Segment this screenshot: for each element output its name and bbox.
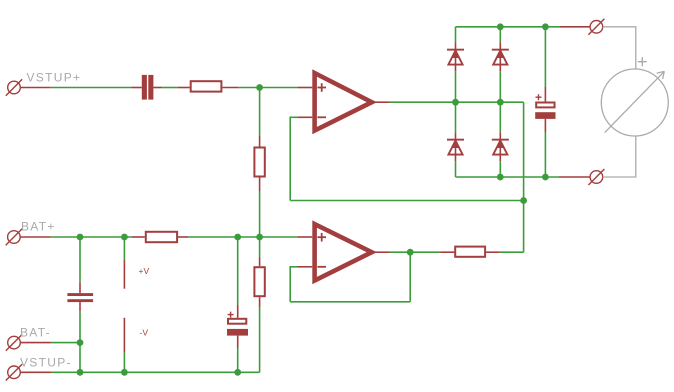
node BAT+ divider (256, 234, 263, 241)
wire C4 column top (79, 237, 81, 282)
meter M1 (601, 27, 668, 177)
wire VSTUP- rail (51, 371, 260, 373)
svg-text:BAT+: BAT+ (21, 220, 56, 234)
wire bridge bottom rail (456, 176, 560, 178)
power pin -V (124, 318, 148, 373)
wire U2 feedback (290, 252, 410, 302)
terminal BAT+ (6, 229, 51, 245)
node bridge mid left (452, 99, 459, 106)
capacitor C1 (131, 75, 162, 100)
svg-text:VSTUP-: VSTUP- (20, 356, 72, 370)
wire bridge column right (499, 27, 501, 177)
svg-text:-V: -V (140, 328, 149, 338)
wire bridge top rail (456, 26, 561, 28)
node BAT+ +V (121, 234, 128, 241)
wire U1 output to bridge (389, 101, 456, 103)
wire bridge column left (455, 27, 457, 177)
power pin +V (124, 237, 149, 289)
wire divider lower column (259, 237, 261, 257)
resistor R5 (440, 247, 500, 257)
node feedback1 junction (520, 197, 527, 204)
wire C3 column top (237, 237, 239, 305)
node VSTUP- C4 (77, 369, 84, 376)
wire C3 to VSTUP- (237, 348, 239, 372)
node bridge mid right (497, 99, 504, 106)
node top rail D2 (497, 23, 504, 30)
wire BAT- to VSTUP- (79, 343, 81, 373)
terminal VSTUP- (6, 364, 51, 380)
resistor R3 (254, 257, 264, 307)
node VSTUP- C3 (234, 369, 241, 376)
wire VSTUP+ to C1 (51, 87, 131, 89)
resistor R2 (254, 136, 264, 191)
op-amp U2 (297, 224, 389, 280)
capacitor C4 (67, 282, 93, 311)
terminal X1 VSTUP+ (6, 79, 51, 95)
node BAT+ C3 (234, 234, 241, 241)
resistor R1 (178, 81, 239, 91)
wire mid rail down to node (523, 102, 525, 252)
node U2 output (407, 249, 414, 256)
wire BAT- (51, 342, 80, 344)
wire divider column upper (259, 88, 261, 137)
diode D3 (447, 132, 464, 161)
node top rail C2 (542, 23, 549, 30)
svg-text:VSTUP+: VSTUP+ (27, 71, 82, 85)
node bottom rail C2 (542, 174, 549, 181)
node VSTUP- -V (121, 369, 128, 376)
capacitor C2 polarized (535, 87, 555, 132)
wire R1 to U1 (239, 87, 298, 89)
diode D4 (492, 132, 509, 161)
capacitor C3 polarized (227, 305, 248, 348)
wire C4 to BAT- (79, 311, 81, 342)
terminal right top (560, 19, 604, 35)
wire bridge mid rail (456, 101, 524, 103)
wire C1 to R1 (162, 87, 178, 89)
node BAT+ C4 (77, 234, 84, 241)
svg-text:BAT-: BAT- (20, 326, 51, 340)
diode D1 (447, 42, 464, 71)
wire U1 feedback to net (290, 117, 523, 201)
wire R2 to BAT+ line (259, 191, 261, 237)
wire C2 column (544, 27, 546, 177)
terminal BAT- (6, 334, 51, 350)
svg-text:+V: +V (139, 266, 150, 276)
diode D2 (492, 42, 509, 71)
node BAT- (77, 339, 84, 346)
node bottom rail D4 (497, 174, 504, 181)
wire R3 to VSTUP- rail (259, 307, 261, 372)
wire R4 to U2 (188, 236, 297, 238)
wire U2 output (389, 251, 440, 253)
terminal right bottom (559, 169, 604, 185)
wire R5 to node (500, 251, 524, 253)
op-amp U1 (297, 73, 389, 131)
node junction VSTUP+/divider (256, 84, 263, 91)
resistor R4 (132, 232, 188, 242)
wire BAT+ to R4 (51, 236, 132, 238)
